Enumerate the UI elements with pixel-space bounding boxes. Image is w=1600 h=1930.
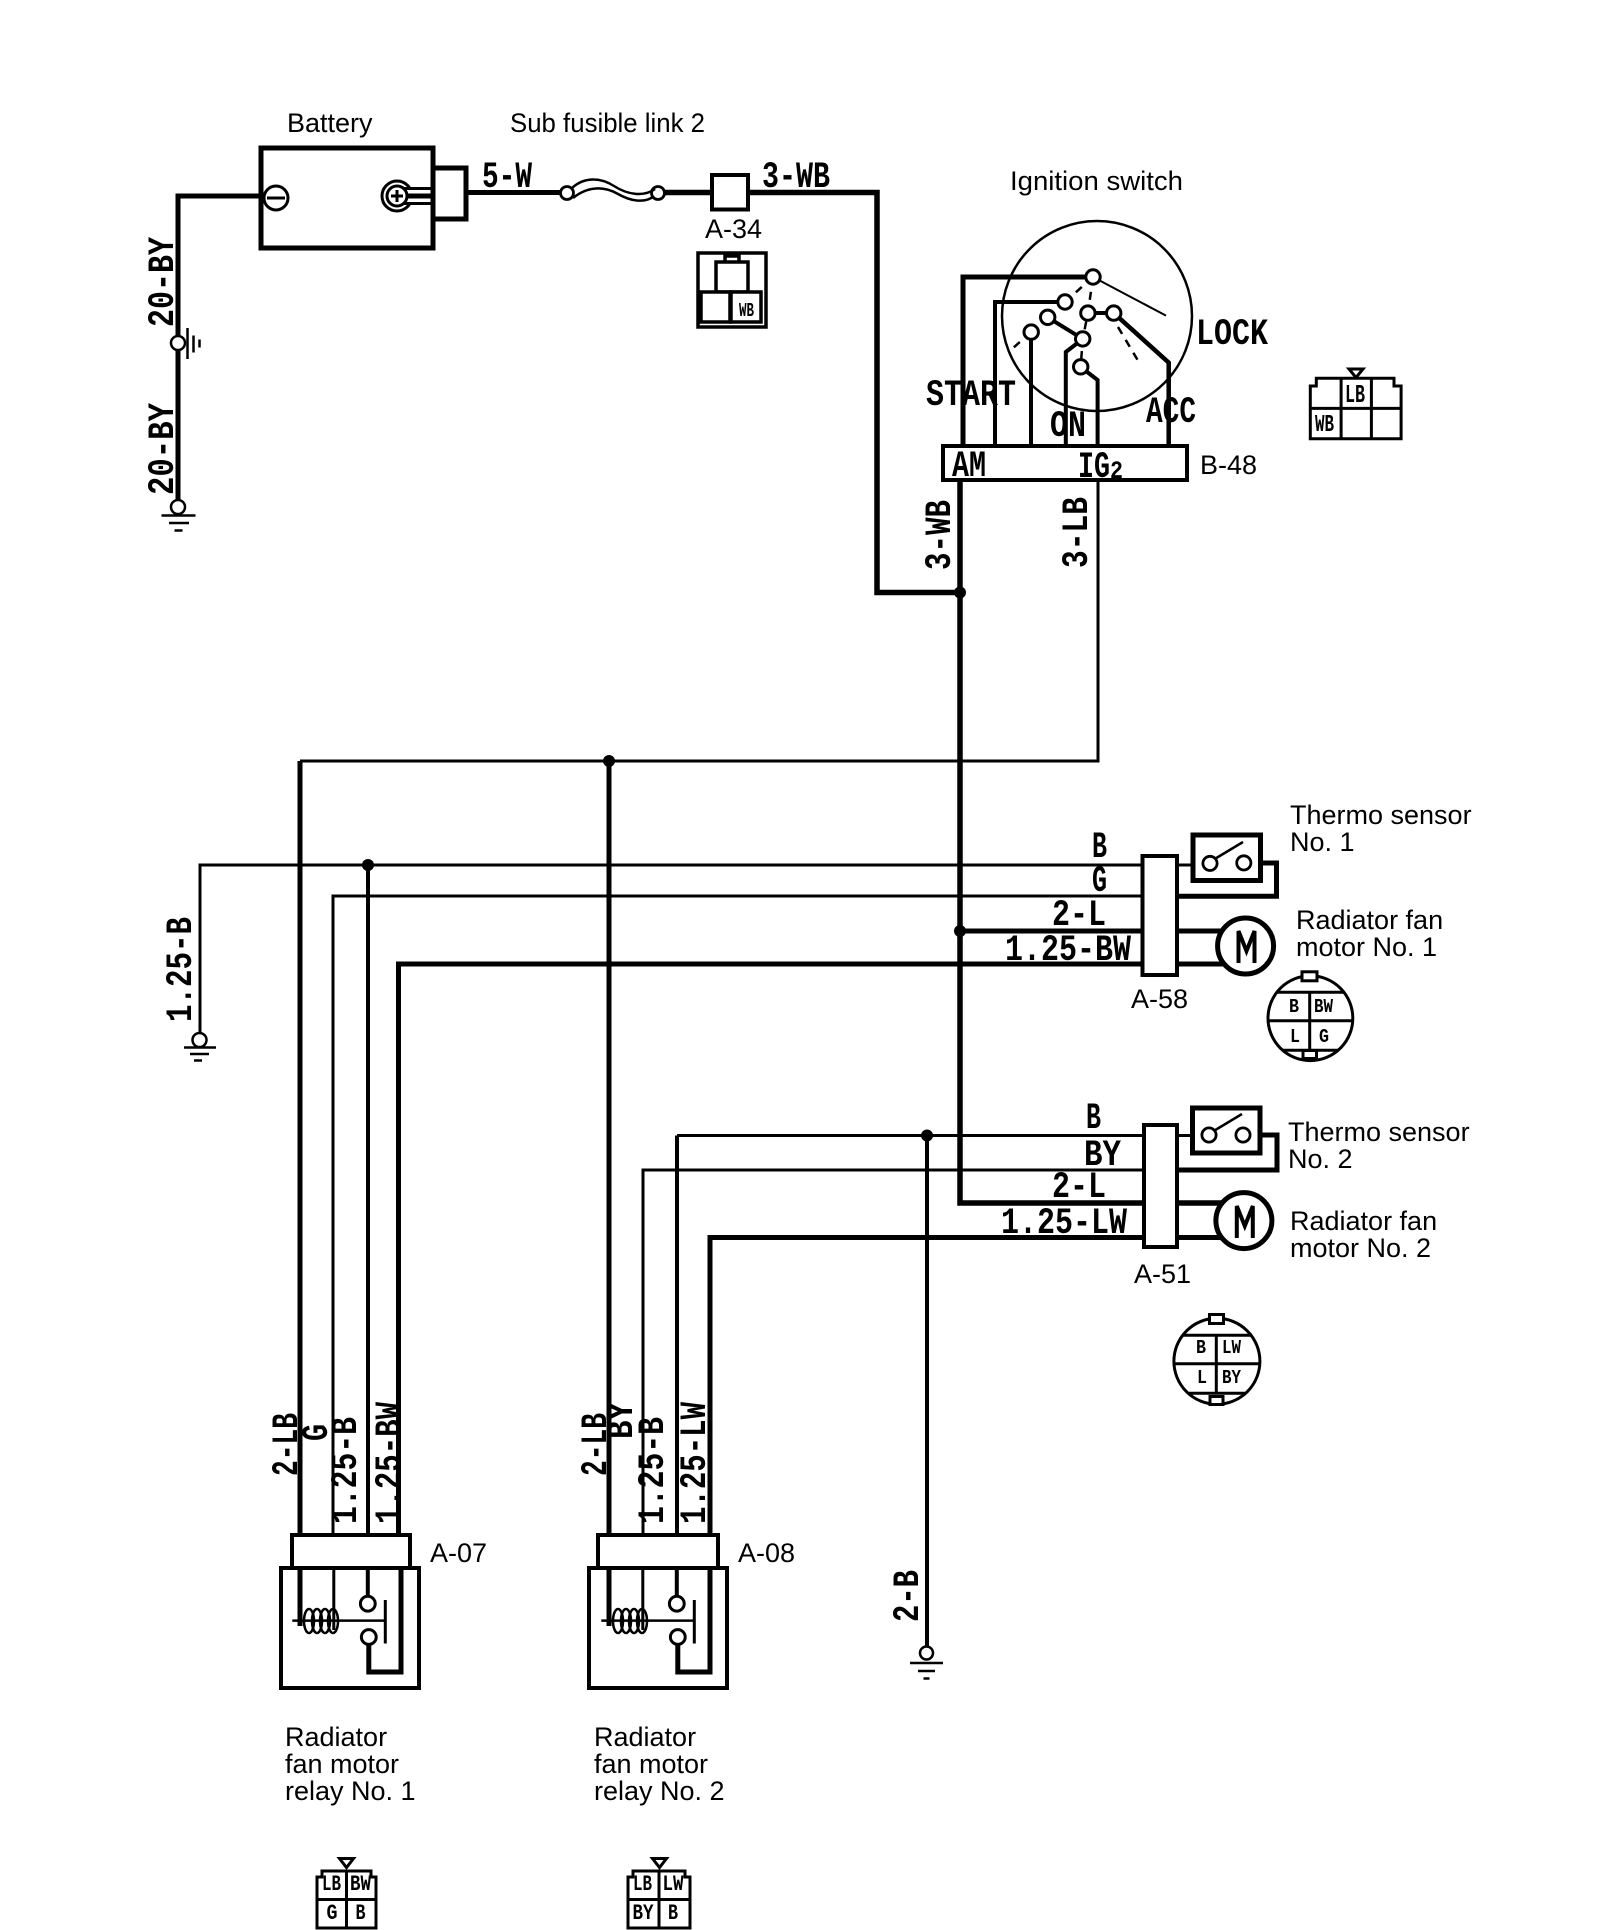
svg-text:20-BY: 20-BY [143,236,185,327]
svg-text:B-48: B-48 [1200,450,1257,480]
svg-text:motor No. 1: motor No. 1 [1296,932,1437,962]
svg-text:1.25-BW: 1.25-BW [1005,930,1132,972]
svg-text:1.25-B: 1.25-B [633,1417,675,1524]
svg-text:3-WB: 3-WB [762,157,830,199]
svg-text:No. 1: No. 1 [1290,827,1355,857]
svg-text:1.25-B: 1.25-B [326,1417,368,1524]
svg-text:Thermo sensor: Thermo sensor [1288,1117,1470,1147]
svg-text:B: B [1086,1098,1101,1140]
svg-text:No. 2: No. 2 [1288,1144,1353,1174]
svg-text:WB: WB [1315,412,1334,439]
svg-text:1.25-LW: 1.25-LW [1001,1203,1128,1245]
svg-text:fan motor: fan motor [594,1749,708,1779]
svg-text:LW: LW [663,1872,685,1897]
svg-text:A-51: A-51 [1134,1259,1191,1289]
svg-text:A-58: A-58 [1131,984,1188,1014]
svg-text:LB: LB [322,1872,341,1897]
svg-text:Radiator: Radiator [285,1722,387,1752]
svg-text:5-W: 5-W [482,157,533,199]
svg-text:20-BY: 20-BY [143,402,185,495]
svg-text:relay No. 1: relay No. 1 [285,1776,416,1806]
svg-text:G: G [327,1901,338,1926]
svg-text:B: B [356,1901,366,1926]
svg-text:B: B [1196,1337,1206,1359]
svg-text:3-LB: 3-LB [1057,497,1099,568]
svg-text:motor No. 2: motor No. 2 [1290,1233,1431,1263]
svg-text:LOCK: LOCK [1196,314,1269,356]
svg-text:LB: LB [1345,380,1365,410]
svg-text:1.25-LW: 1.25-LW [675,1401,717,1524]
svg-text:ON: ON [1050,406,1086,448]
svg-text:A-07: A-07 [430,1538,487,1568]
svg-text:ACC: ACC [1146,392,1196,434]
svg-text:WB: WB [739,300,754,322]
svg-text:Radiator fan: Radiator fan [1290,1206,1437,1236]
svg-text:2: 2 [1110,457,1123,486]
svg-text:BY: BY [1222,1367,1241,1389]
svg-text:BW: BW [350,1872,372,1897]
svg-text:fan motor: fan motor [285,1749,399,1779]
svg-text:B: B [1289,996,1299,1018]
svg-text:A-08: A-08 [738,1538,795,1568]
svg-text:Thermo sensor: Thermo sensor [1290,800,1472,830]
svg-text:A-34: A-34 [705,214,762,244]
svg-text:2-B: 2-B [888,1570,930,1622]
svg-text:2-LB: 2-LB [267,1413,309,1476]
svg-text:L: L [1290,1026,1300,1048]
svg-text:Battery: Battery [287,108,373,138]
svg-text:G: G [1319,1026,1329,1048]
svg-text:Radiator: Radiator [594,1722,696,1752]
svg-text:B: B [668,1901,678,1926]
svg-text:1.25-BW: 1.25-BW [370,1401,412,1524]
svg-text:IG: IG [1078,447,1110,489]
svg-text:LW: LW [1222,1337,1241,1359]
svg-text:BW: BW [1314,996,1333,1018]
svg-text:relay No. 2: relay No. 2 [594,1776,725,1806]
svg-text:Radiator fan: Radiator fan [1296,905,1443,935]
svg-text:3-WB: 3-WB [920,500,962,570]
svg-text:START: START [926,375,1016,417]
svg-text:L: L [1197,1367,1207,1389]
svg-text:AM: AM [952,446,986,488]
svg-text:LB: LB [633,1872,652,1897]
svg-text:BY: BY [633,1901,655,1926]
svg-text:Ignition switch: Ignition switch [1010,166,1183,196]
svg-text:Sub fusible link 2: Sub fusible link 2 [510,108,705,138]
svg-text:1.25-B: 1.25-B [161,917,203,1022]
